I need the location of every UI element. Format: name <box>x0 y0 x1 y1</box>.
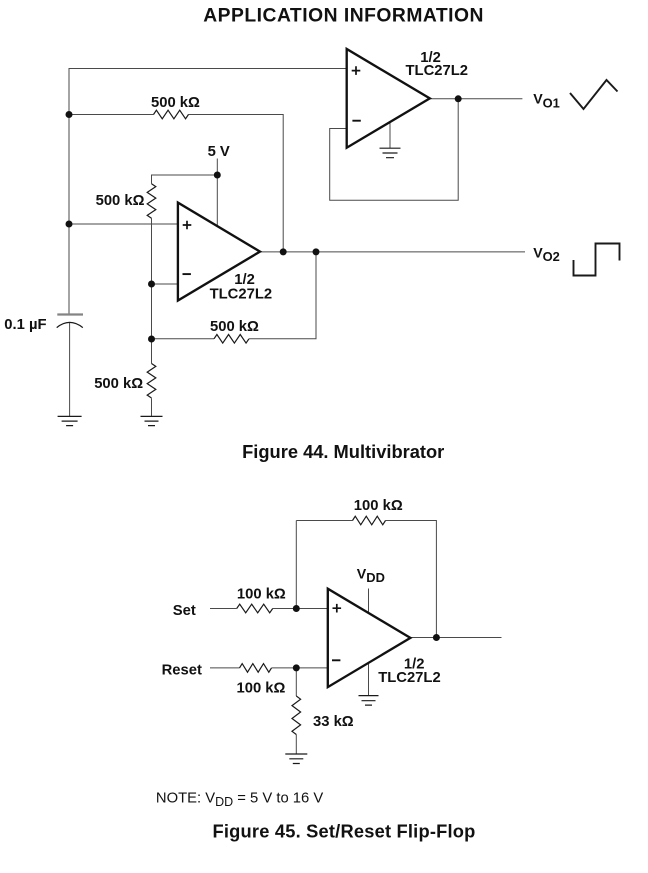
op-amp U1A triangle <box>347 49 430 148</box>
ground under R7 <box>285 754 307 764</box>
svg-text:500 kΩ: 500 kΩ <box>94 376 143 392</box>
wire U1A ground stem <box>389 122 391 148</box>
op-amp U2 plus symbol <box>333 604 342 613</box>
svg-text:Figure 44. Multivibrator: Figure 44. Multivibrator <box>242 441 444 462</box>
resistor R8 100k zigzag horizontal (feedback) <box>353 516 386 525</box>
ground under U1A <box>380 148 401 158</box>
wire 5V dot to R2 top corner <box>152 175 218 184</box>
svg-text:TLC27L2: TLC27L2 <box>210 286 273 302</box>
svg-text:500 kΩ: 500 kΩ <box>151 95 200 111</box>
wire R1 right to corner and down to U1B output node <box>188 115 283 252</box>
svg-text:500 kΩ: 500 kΩ <box>96 193 145 209</box>
svg-text:0.1 µF: 0.1 µF <box>4 317 46 333</box>
wire feedback top horizontal <box>296 520 352 522</box>
wire node A to R1 <box>69 114 154 116</box>
node dot U1B minus <box>148 281 155 288</box>
node dot 5V <box>214 172 221 179</box>
ground under capacitor C1 <box>58 416 82 425</box>
op-amp U1B minus symbol <box>183 273 191 275</box>
resistor R3 500k zigzag horizontal <box>214 335 249 344</box>
svg-text:Reset: Reset <box>162 662 202 678</box>
svg-text:Set: Set <box>173 603 196 619</box>
wire R6 to reset node to U2 - input <box>272 667 328 669</box>
svg-text:TLC27L2: TLC27L2 <box>378 670 441 686</box>
svg-text:100 kΩ: 100 kΩ <box>237 586 286 602</box>
op-amp U1B plus symbol <box>183 221 192 230</box>
wire feedback top right segment and down to output <box>386 521 437 638</box>
resistor R6 100k zigzag horizontal (Reset) <box>240 664 272 673</box>
wire U1B output to VO2 label <box>260 251 526 253</box>
svg-text:33 kΩ: 33 kΩ <box>313 714 354 730</box>
op-amp U2 triangle <box>328 589 411 687</box>
waveform triangle at VO1 <box>570 80 618 109</box>
node dot C <box>148 336 155 343</box>
node dot Reset <box>293 664 300 671</box>
resistor R2 500k zigzag vertical <box>147 184 156 219</box>
node dot B <box>66 221 73 228</box>
ground under R4 <box>141 416 163 425</box>
wire VDD stem <box>368 589 370 614</box>
ground under U2 <box>359 696 379 706</box>
wire minus node down to node C <box>151 284 153 339</box>
wire node B to U1B + input <box>69 223 177 225</box>
wire U1A feedback loop <box>330 99 459 200</box>
wire Reset input to R6 <box>210 667 240 669</box>
wire R2 bottom down to minus node <box>151 218 153 284</box>
svg-text:5 V: 5 V <box>208 144 230 160</box>
resistor R1 500k zigzag horizontal <box>154 110 189 119</box>
svg-text:100 kΩ: 100 kΩ <box>237 681 286 697</box>
wire U2 output <box>410 637 502 639</box>
op-amp U1B triangle <box>178 203 260 301</box>
svg-text:APPLICATION INFORMATION: APPLICATION INFORMATION <box>203 6 484 27</box>
wire U2 ground stem <box>368 663 370 695</box>
node dot A <box>66 111 73 118</box>
wire U1B V+ supply stem <box>216 175 218 226</box>
wire Set input to R5 <box>210 608 237 610</box>
wire left rail upper segment <box>68 68 70 314</box>
capacitor C1 curved plate <box>57 322 83 327</box>
wire R5 to set node to U2 + input <box>273 608 327 610</box>
op-amp U2 minus symbol <box>332 659 340 661</box>
svg-text:TLC27L2: TLC27L2 <box>406 63 469 79</box>
node dot U1B output 2 <box>313 248 320 255</box>
wire top from left rail to U1A + input <box>69 68 347 70</box>
node dot U1A output <box>455 95 462 102</box>
op-amp U1A minus symbol <box>352 120 360 122</box>
node dot Set <box>293 605 300 612</box>
wire left rail lower segment (cap to ground) <box>69 323 71 416</box>
wire minus node to U1B - input <box>152 283 178 285</box>
wire R4 bottom to ground <box>151 398 153 416</box>
svg-text:NOTE: VDD = 5 V to 16 V: NOTE: VDD = 5 V to 16 V <box>156 791 323 810</box>
wire node C to R4 top <box>151 339 153 364</box>
node dot U1B output 1 <box>280 248 287 255</box>
svg-text:500 kΩ: 500 kΩ <box>210 319 259 335</box>
wire reset node down to R7 <box>295 668 297 696</box>
resistor R7 33k zigzag vertical <box>292 696 301 734</box>
svg-text:Figure 45. Set/Reset Flip-Flop: Figure 45. Set/Reset Flip-Flop <box>213 821 476 842</box>
wire feedback left vertical down to set node <box>295 521 297 609</box>
wire node C to R3 <box>152 338 215 340</box>
resistor R4 500k zigzag vertical <box>147 364 156 399</box>
wire R3 right, corner up to U1B output <box>249 252 316 339</box>
svg-text:100 kΩ: 100 kΩ <box>354 498 403 514</box>
wire U1A output to VO1 label <box>430 98 522 100</box>
wire 5V stem to dot <box>216 159 218 176</box>
resistor R5 100k zigzag horizontal (Set) <box>237 604 273 613</box>
op-amp U1A plus symbol <box>352 66 361 75</box>
waveform square at VO2 <box>574 244 620 276</box>
capacitor C1 top plate <box>57 313 83 315</box>
node dot U2 output <box>433 634 440 641</box>
wire R7 bottom to ground <box>295 735 297 754</box>
